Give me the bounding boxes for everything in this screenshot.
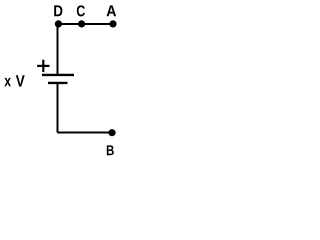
label A — [107, 5, 117, 16]
battery V1 negative short plate — [48, 82, 68, 84]
battery polarity + sign — [37, 65, 49, 67]
label D — [54, 5, 62, 16]
label C — [77, 5, 85, 16]
wire left vertical from D to battery + plate — [57, 23, 59, 75]
battery V1 positive long plate — [42, 74, 74, 76]
node D (junction dot) — [55, 20, 62, 27]
node A (terminal dot) — [109, 20, 116, 27]
wire left vertical from battery - plate to bottom rail — [57, 83, 59, 133]
label x V (battery value) — [4, 75, 24, 86]
node C (terminal dot) — [78, 20, 85, 27]
wire bottom rail to B — [58, 132, 113, 134]
node B (terminal dot) — [108, 129, 115, 136]
wire top rail D-C-A — [58, 23, 114, 25]
label B — [107, 145, 114, 155]
